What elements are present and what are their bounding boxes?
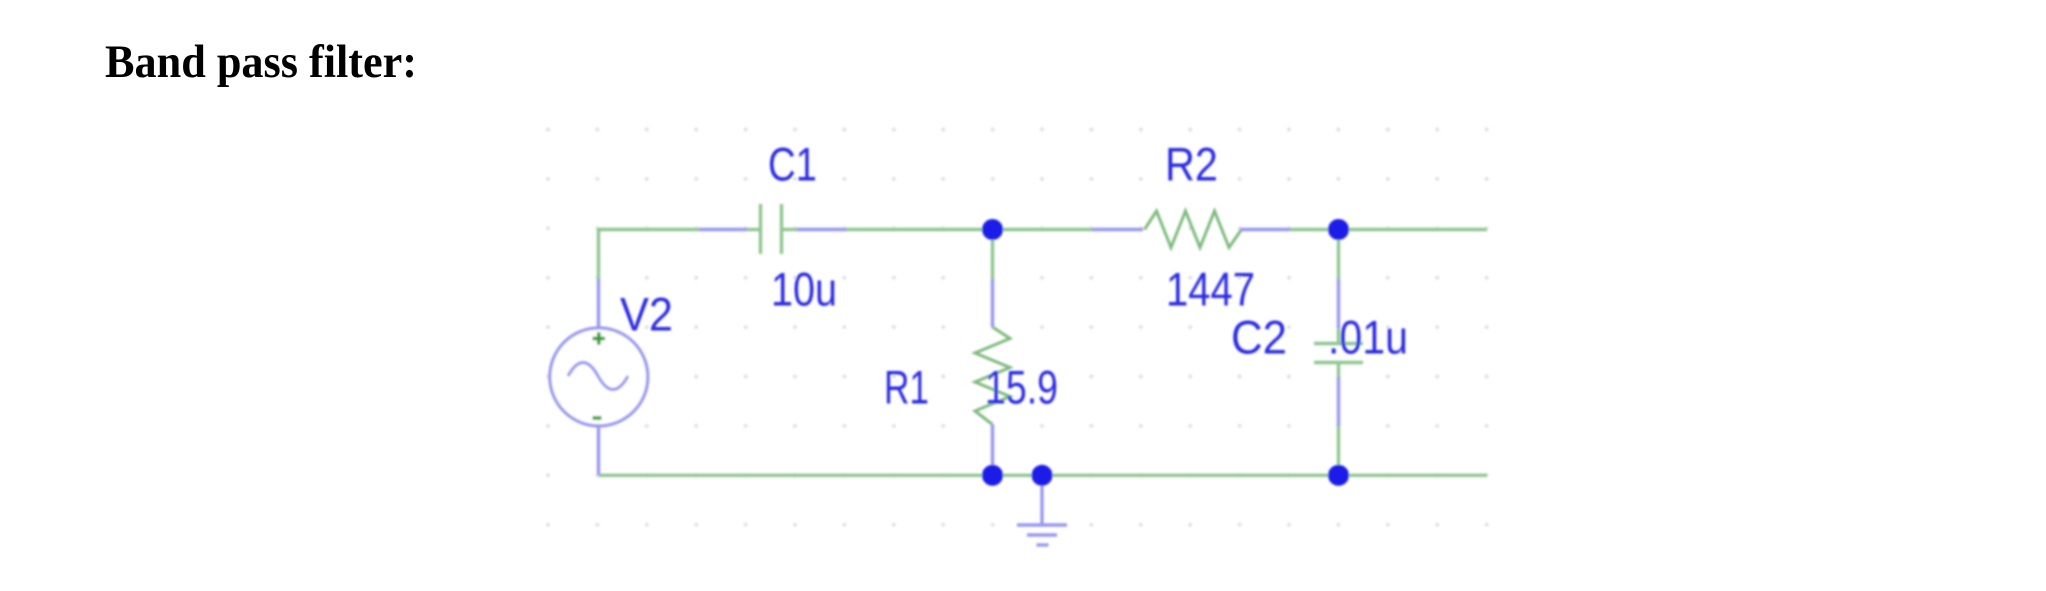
svg-text:1447: 1447: [1166, 263, 1255, 316]
svg-text:.01u: .01u: [1328, 311, 1408, 364]
svg-text:C1: C1: [768, 138, 817, 191]
svg-text:C2: C2: [1231, 311, 1287, 364]
svg-text:V2: V2: [620, 288, 673, 341]
svg-text:Band pass filter:: Band pass filter:: [105, 36, 417, 88]
svg-text:R2: R2: [1165, 138, 1218, 191]
svg-text:R1: R1: [884, 361, 929, 414]
svg-text:15.9: 15.9: [985, 361, 1058, 414]
svg-text:10u: 10u: [771, 263, 837, 316]
